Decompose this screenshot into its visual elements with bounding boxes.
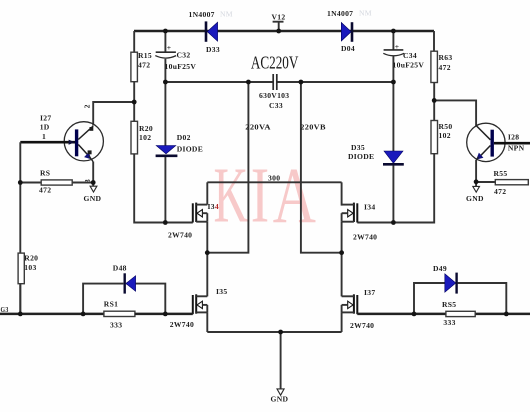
svg-text:300: 300 xyxy=(268,174,280,183)
wire R20 column xyxy=(133,102,135,121)
svg-text:R55: R55 xyxy=(494,169,508,178)
svg-text:I35: I35 xyxy=(216,287,227,296)
wire C34 to D35 xyxy=(392,82,394,151)
svg-text:R63: R63 xyxy=(439,53,453,62)
transistor I27 xyxy=(20,104,103,183)
mosfet I34 right xyxy=(342,203,378,242)
svg-text:102: 102 xyxy=(139,133,151,142)
wire R20b column xyxy=(19,253,21,314)
svg-text:RS5: RS5 xyxy=(442,300,456,309)
ground bottom xyxy=(271,332,289,404)
wire R15 column top xyxy=(133,31,135,52)
svg-text:R50: R50 xyxy=(439,122,453,131)
svg-text:V12: V12 xyxy=(272,13,286,22)
wire right bus upper xyxy=(341,182,343,205)
svg-text:472: 472 xyxy=(138,60,150,69)
wire G3 line xyxy=(0,313,104,316)
wire left rail xyxy=(19,142,21,314)
capacitor C34 xyxy=(383,31,424,82)
wire collector link right xyxy=(434,100,476,125)
diode D04 xyxy=(327,9,372,53)
wire R50 column xyxy=(433,100,435,120)
resistor R55 xyxy=(476,169,528,196)
wire left bus upper xyxy=(206,182,208,204)
svg-text:D04: D04 xyxy=(341,44,355,53)
wire R63 to junction xyxy=(433,83,435,101)
svg-text:2W740: 2W740 xyxy=(170,320,194,329)
wire D02 to gate node xyxy=(164,157,166,223)
svg-text:472: 472 xyxy=(39,185,51,194)
wire D49 loop xyxy=(414,283,506,314)
resistor R20 103 xyxy=(18,253,38,284)
capacitor C33 xyxy=(259,74,289,110)
wire emitter I27 xyxy=(92,162,94,183)
mosfet I34 left xyxy=(168,202,219,240)
diode D49 xyxy=(433,264,457,294)
wire right bus lower xyxy=(341,312,343,332)
svg-text:333: 333 xyxy=(443,318,455,327)
label 220VB xyxy=(300,123,326,132)
svg-text:102: 102 xyxy=(439,131,451,140)
wire gate I37 line xyxy=(357,313,530,316)
resistor R15 xyxy=(131,51,152,82)
ground left xyxy=(84,183,102,203)
transistor I28 xyxy=(467,123,530,161)
svg-text:220VB: 220VB xyxy=(300,123,326,132)
wire C32 to D02 xyxy=(164,82,166,146)
svg-text:I28: I28 xyxy=(508,132,519,141)
svg-text:C32: C32 xyxy=(177,51,191,60)
diode D35 xyxy=(348,143,404,164)
label G3 xyxy=(1,305,9,314)
label 220VA xyxy=(245,123,271,132)
resistor R63 xyxy=(431,51,453,82)
svg-text:630V103: 630V103 xyxy=(259,91,289,100)
svg-text:I34: I34 xyxy=(364,203,375,212)
label AC220V xyxy=(251,53,299,73)
svg-text:D35: D35 xyxy=(351,143,365,152)
svg-text:D49: D49 xyxy=(433,264,447,273)
svg-text:2: 2 xyxy=(82,104,91,108)
svg-text:10uF25V: 10uF25V xyxy=(165,62,197,71)
mosfet I37 xyxy=(342,288,376,330)
svg-text:333: 333 xyxy=(110,321,122,330)
svg-text:DIODE: DIODE xyxy=(177,144,203,153)
svg-text:1N4007: 1N4007 xyxy=(327,9,353,18)
wire top rail xyxy=(134,30,434,33)
svg-text:R15: R15 xyxy=(138,51,152,60)
svg-text:2W740: 2W740 xyxy=(350,321,374,330)
svg-text:A: A xyxy=(273,153,317,240)
diode D33 xyxy=(189,10,233,54)
ground right xyxy=(466,182,484,203)
svg-text:+: + xyxy=(167,43,172,52)
mosfet I35 xyxy=(170,287,228,329)
svg-text:2W740: 2W740 xyxy=(353,233,377,242)
wire 220VA column xyxy=(207,82,248,253)
svg-text:10uF25V: 10uF25V xyxy=(393,61,425,70)
svg-text:I: I xyxy=(251,151,269,239)
node V12 xyxy=(272,13,286,32)
wire RS1 to gate I35 xyxy=(135,313,193,316)
svg-text:1D: 1D xyxy=(40,122,50,131)
svg-text:AC220V: AC220V xyxy=(251,53,299,73)
wire emitter I28 xyxy=(475,160,477,182)
wire R20 to gate I34 xyxy=(134,154,193,223)
svg-text:D02: D02 xyxy=(177,133,191,142)
svg-text:GND: GND xyxy=(271,395,289,404)
diode D48 xyxy=(113,264,136,294)
svg-text:1N4007: 1N4007 xyxy=(189,10,215,19)
svg-text:I34: I34 xyxy=(208,202,219,211)
diode D02 xyxy=(156,133,204,156)
wire 300 rail xyxy=(207,174,341,183)
wire R63 column top xyxy=(433,31,435,51)
wire left bus lower xyxy=(206,312,208,332)
resistor RS xyxy=(20,168,93,194)
wire R50 to gate I34 right xyxy=(357,154,434,223)
svg-text:NM: NM xyxy=(359,9,372,18)
svg-text:C34: C34 xyxy=(403,51,417,60)
svg-text:472: 472 xyxy=(439,63,451,72)
svg-text:2W740: 2W740 xyxy=(168,231,192,240)
svg-text:GND: GND xyxy=(84,194,102,203)
capacitor C32 xyxy=(155,31,196,82)
svg-text:472: 472 xyxy=(494,187,506,196)
watermark KIA xyxy=(214,151,317,240)
svg-text:C33: C33 xyxy=(269,101,283,110)
wire AC rail xyxy=(165,81,393,83)
svg-text:NPN: NPN xyxy=(508,143,525,152)
wire D35 to gate node xyxy=(392,166,394,223)
wire right bus middle xyxy=(341,222,343,297)
svg-text:220VA: 220VA xyxy=(245,123,271,132)
wire D48 loop xyxy=(83,284,165,314)
svg-text:R20: R20 xyxy=(139,124,153,133)
svg-text:I37: I37 xyxy=(364,288,375,297)
resistor RS5 xyxy=(442,300,475,327)
svg-text:NM: NM xyxy=(220,10,233,19)
svg-text:RS1: RS1 xyxy=(104,299,118,308)
svg-text:103: 103 xyxy=(24,263,36,272)
svg-text:+: + xyxy=(395,42,400,51)
svg-text:DIODE: DIODE xyxy=(348,152,374,161)
svg-text:R20: R20 xyxy=(24,254,38,263)
svg-text:D33: D33 xyxy=(206,45,220,54)
svg-text:K: K xyxy=(214,153,249,240)
resistor R20 xyxy=(131,121,153,154)
wire collector link left xyxy=(93,102,134,126)
svg-text:D48: D48 xyxy=(113,264,127,273)
wire R15 to junction xyxy=(133,82,135,102)
svg-text:I27: I27 xyxy=(40,114,51,123)
svg-text:RS: RS xyxy=(40,168,50,177)
resistor RS1 xyxy=(104,299,135,329)
wire left bus middle xyxy=(206,222,208,297)
svg-text:GND: GND xyxy=(466,194,484,203)
wire 220VB column xyxy=(301,82,342,253)
wire bottom rail xyxy=(207,331,341,333)
svg-text:1: 1 xyxy=(42,132,46,141)
resistor R50 xyxy=(431,121,452,154)
